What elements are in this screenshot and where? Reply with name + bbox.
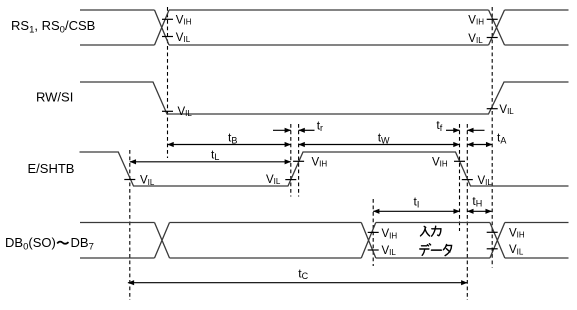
dashed guide line at RS/RW left transition x=167.5 <box>167 7 169 158</box>
dashed guide line at E rise V_IL crossing x=290.8 <box>290 124 292 197</box>
tick V_IH at DB right transition <box>487 231 498 233</box>
tick V_IH at RS left transition <box>162 18 173 20</box>
svg-text:tr: tr <box>317 118 323 133</box>
svg-text:tH: tH <box>472 194 482 209</box>
tick V_IL at RS left transition <box>162 36 173 38</box>
dashed guide line at E fall right V_IH crossing x=459.5 <box>459 124 461 231</box>
tick V_IH at RS right transition <box>487 18 498 20</box>
kanji 力 (force) stroke group <box>432 226 441 236</box>
tick V_IL at E left fall <box>124 179 135 181</box>
dashed guide line at DB data-valid x=373.2 <box>372 199 374 266</box>
svg-text:VIL: VIL <box>382 245 397 257</box>
tick V_IH at E right fall <box>454 160 465 162</box>
svg-text:VIL: VIL <box>499 104 514 116</box>
dashed guide line at E rise V_IH crossing x=298.6 <box>298 124 300 197</box>
svg-text:tL: tL <box>211 147 219 162</box>
svg-text:VIH: VIH <box>382 228 398 240</box>
svg-text:tf: tf <box>436 118 442 133</box>
svg-text:tW: tW <box>378 131 390 146</box>
dimension t_C arrow line <box>128 282 467 284</box>
katakana デ stroke group <box>420 244 431 256</box>
dimension t_I arrow line <box>373 210 460 212</box>
svg-text:RW/SI: RW/SI <box>36 90 73 105</box>
svg-text:tA: tA <box>497 131 506 146</box>
dashed guide line at E fall left V_IL crossing x=129.8 <box>129 150 131 300</box>
svg-text:DB7: DB7 <box>71 235 94 253</box>
svg-text:RS1, RS0/CSB: RS1, RS0/CSB <box>11 18 95 36</box>
dimension t_L arrow line <box>130 161 291 163</box>
svg-text:VIL: VIL <box>478 175 493 187</box>
dashed guide line at E fall right V_IL crossing x=467.3 <box>466 124 468 300</box>
svg-text:VIH: VIH <box>312 157 328 169</box>
svg-text:VIH: VIH <box>432 157 448 169</box>
svg-text:DB0(SO): DB0(SO) <box>5 235 56 253</box>
svg-text:tI: tI <box>414 195 420 210</box>
tick V_IL at E right fall <box>462 179 473 181</box>
svg-text:tC: tC <box>298 266 308 281</box>
katakana タ stroke group <box>443 245 451 256</box>
svg-text:VIH: VIH <box>509 228 525 240</box>
dimension t_H arrow line <box>467 210 491 212</box>
svg-text:VIH: VIH <box>176 15 192 27</box>
DB0(SO)~DB7 bus waveform <box>80 223 569 259</box>
dimension t_f right arrow <box>467 129 484 131</box>
tick V_IL at DB right transition <box>487 248 498 250</box>
tick V_IL at RW rise <box>487 108 498 110</box>
svg-text:VIL: VIL <box>176 32 191 44</box>
tick V_IH at DB data-valid <box>368 231 379 233</box>
dimension t_B arrow line <box>168 144 291 146</box>
tick V_IL at RS right transition <box>487 37 498 39</box>
E/SHTB waveform <box>80 152 569 186</box>
dimension t_W arrow line <box>299 144 460 146</box>
svg-text:VIL: VIL <box>468 33 483 45</box>
tick V_IL at E rise <box>285 179 296 181</box>
svg-text:VIL: VIL <box>509 244 524 256</box>
tick V_IL at DB data-valid <box>368 249 379 251</box>
tick V_IL at RW fall <box>162 110 173 112</box>
svg-text:VIL: VIL <box>178 106 193 118</box>
dimension t_A arrow line <box>467 144 492 146</box>
dashed guide line at RS/RW right transition x=492.2 <box>491 7 493 268</box>
RS1,RS0/CSB bus waveform <box>80 10 569 45</box>
dimension t_r left arrow <box>273 129 291 131</box>
tick V_IH at E rise <box>293 160 304 162</box>
kanji 入 (input) stroke group <box>421 226 430 236</box>
svg-text:VIH: VIH <box>468 15 484 27</box>
RW/SI waveform <box>80 82 569 114</box>
svg-text:E/SHTB: E/SHTB <box>28 161 75 176</box>
fullwidth wave dash of DB label <box>57 242 68 244</box>
svg-text:VIL: VIL <box>266 174 281 186</box>
dimension t_r right arrow <box>299 129 315 131</box>
svg-text:tB: tB <box>228 131 237 146</box>
katakana ー stroke <box>432 249 442 251</box>
dimension t_f left arrow <box>446 129 460 131</box>
svg-text:VIL: VIL <box>140 175 155 187</box>
